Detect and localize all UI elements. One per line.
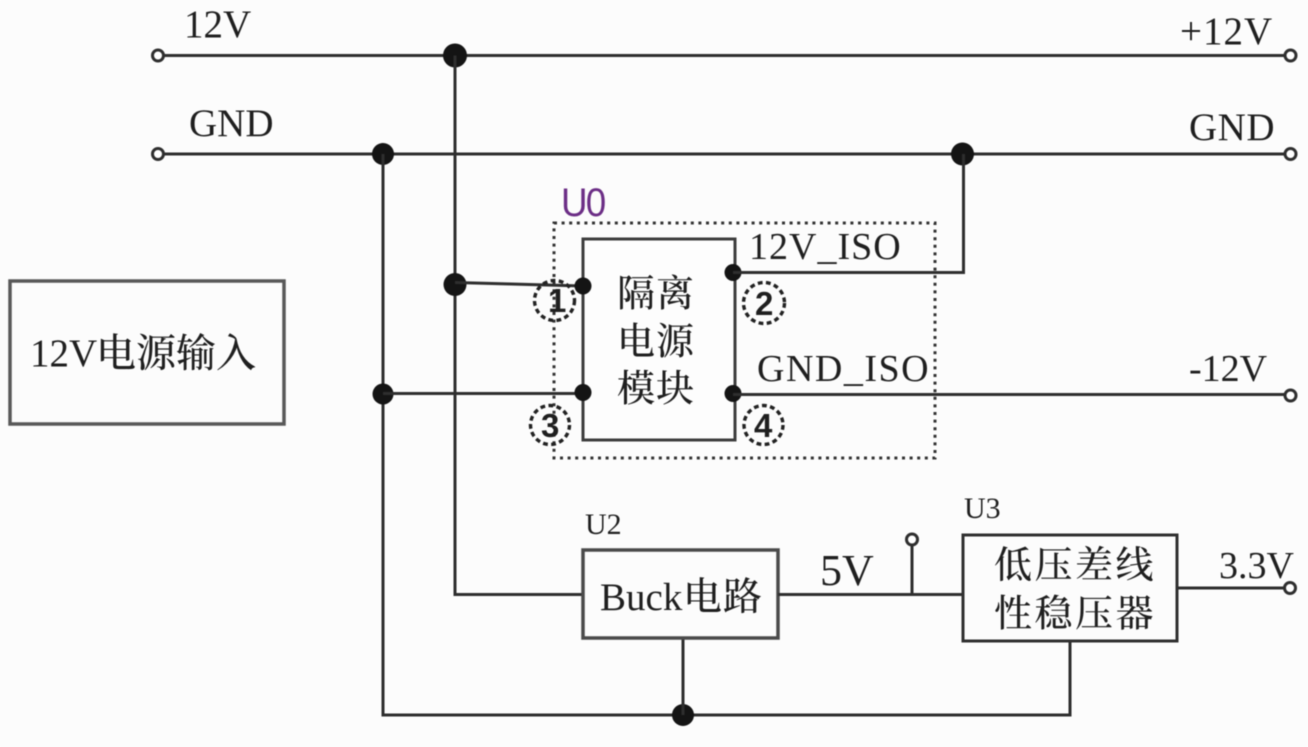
- terminal 5V stub (open circle): [907, 534, 918, 545]
- terminal 12V input (open circle, left): [153, 50, 164, 61]
- block LDO box U3 (low dropout linear regulator): [963, 535, 1177, 641]
- terminal +12V output (open circle, right): [1285, 50, 1296, 61]
- svg-text:3: 3: [541, 407, 559, 444]
- pin 3 dot of module: [575, 384, 592, 401]
- terminal GND input (open circle, left): [153, 149, 164, 160]
- svg-text:2: 2: [755, 285, 773, 322]
- svg-text:GND: GND: [1189, 106, 1275, 149]
- wire 5V stub vertical: [911, 545, 914, 595]
- svg-text:U0: U0: [561, 181, 605, 226]
- svg-text:+12V: +12V: [1180, 10, 1273, 53]
- svg-text:U3: U3: [964, 492, 1001, 525]
- wire vertical from GND bus down + bottom return bus + U3 ground leg: [383, 154, 1070, 715]
- pin number 4 (dashed circle): [744, 406, 783, 445]
- pin number 2 (dashed circle): [744, 283, 785, 324]
- junction on vertical wire at pin-1 feed (node D): [444, 273, 467, 296]
- junction on bottom return bus (node F): [672, 704, 694, 726]
- svg-text:U2: U2: [585, 508, 622, 541]
- wire from node E to module pin 3: [383, 392, 583, 395]
- junction on 12V bus (node A): [443, 44, 467, 68]
- svg-text:5V: 5V: [820, 546, 874, 595]
- svg-text:4: 4: [754, 407, 773, 444]
- label 性稳压器 (line 2): [995, 595, 1152, 630]
- svg-text:GND_ISO: GND_ISO: [757, 348, 930, 390]
- wire 12V_ISO: pin2 right then up to GND bus node C: [733, 154, 964, 273]
- dashed boundary box of U0 module: [554, 223, 935, 458]
- label 隔离 电源 模块 (module text): [618, 274, 693, 404]
- svg-text:Buck: Buck: [600, 576, 683, 619]
- svg-text:3.3V: 3.3V: [1219, 545, 1295, 587]
- svg-text:12V_ISO: 12V_ISO: [749, 226, 902, 268]
- wire 12V bus (top horizontal): [164, 54, 1286, 57]
- wire Buck output to U3 input (5V net): [778, 593, 963, 596]
- op module 隔离电源模块 box (isolated power module U0): [583, 239, 735, 440]
- wire Buck bottom to bottom return bus: [682, 638, 685, 715]
- junction GND_ISO left (node E): [373, 384, 394, 405]
- pin 2 dot of module: [725, 264, 742, 281]
- pin number 3 (dashed circle): [531, 406, 570, 445]
- pin 4 dot of module: [725, 385, 742, 402]
- junction on GND bus at x=962 (node C): [951, 143, 974, 166]
- junction on GND bus at x=383 (node B): [372, 143, 394, 165]
- wire GND bus (second horizontal): [164, 153, 1286, 156]
- block Buck circuit box U2: [583, 550, 778, 638]
- wire from node D to module pin 1: [455, 283, 583, 287]
- label Buck电路: [600, 576, 761, 619]
- terminal 3.3V (open circle): [1285, 583, 1296, 594]
- pin number 1 (dashed circle): [535, 281, 575, 321]
- svg-text:12V: 12V: [184, 3, 251, 46]
- label 12V电源输入: [30, 332, 255, 375]
- terminal -12V (open circle, right): [1285, 390, 1296, 401]
- block 12V power input box: [10, 281, 284, 424]
- pin 1 dot of module: [575, 278, 592, 295]
- wire vertical from 12V bus down to Buck input: [455, 56, 583, 595]
- svg-text:1: 1: [548, 282, 566, 319]
- wire GND_ISO: pin4 right to -12V terminal: [733, 393, 1285, 396]
- terminal GND output (open circle, right): [1285, 149, 1296, 160]
- svg-text:GND: GND: [189, 102, 274, 145]
- svg-text:12V: 12V: [30, 332, 97, 375]
- label 低压差线 (line 1): [995, 546, 1153, 581]
- wire U3 output to 3.3V terminal: [1177, 587, 1285, 590]
- svg-text:-12V: -12V: [1189, 348, 1268, 390]
